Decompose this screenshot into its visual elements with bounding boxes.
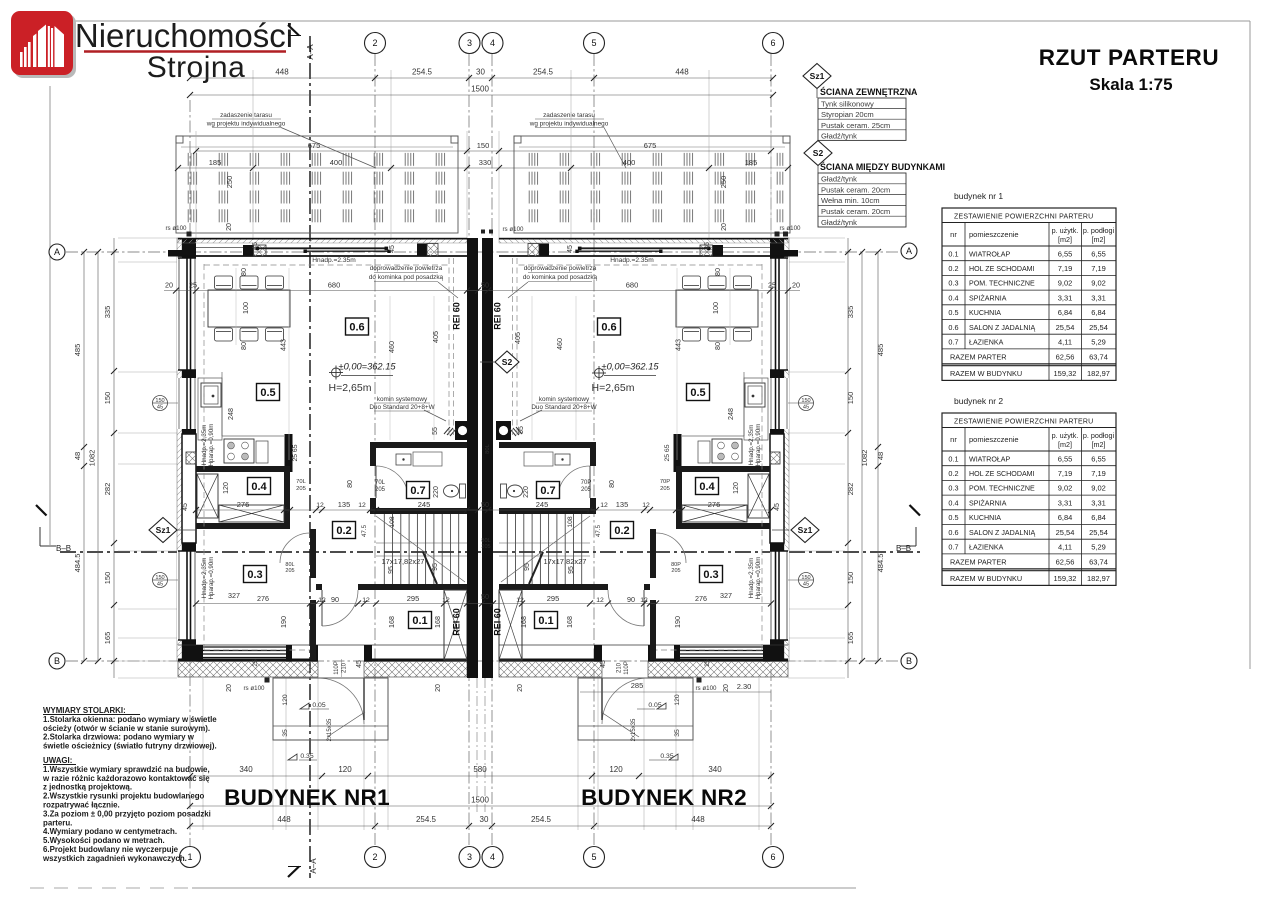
svg-text:95: 95 (432, 563, 439, 571)
grid bubble 1 bottom (180, 847, 201, 868)
terrace roof left hatch (181, 150, 453, 228)
svg-text:55: 55 (432, 427, 439, 435)
room label 0.4 unit2 (696, 478, 719, 495)
svg-text:80L: 80L (485, 443, 491, 453)
svg-text:SPIŻARNIA: SPIŻARNIA (969, 498, 1007, 507)
svg-text:205: 205 (671, 568, 680, 574)
svg-text:20: 20 (226, 223, 233, 231)
svg-text:80: 80 (347, 480, 354, 488)
svg-text:7,19: 7,19 (1058, 469, 1073, 478)
svg-text:2.Wszystkie rysunki projektu b: 2.Wszystkie rysunki projektu budowlanego (43, 792, 205, 801)
svg-text:484.5: 484.5 (73, 554, 82, 573)
svg-text:45: 45 (157, 582, 163, 588)
svg-text:1: 1 (187, 852, 192, 862)
grid axis column 1 (189, 100, 191, 846)
svg-text:A–A: A–A (309, 858, 318, 874)
svg-text:62,56: 62,56 (1056, 558, 1075, 567)
svg-text:448: 448 (675, 68, 689, 77)
svg-text:190: 190 (673, 616, 682, 628)
svg-text:205: 205 (481, 544, 490, 550)
svg-text:5,29: 5,29 (1091, 543, 1106, 552)
dimension column left inner (113, 238, 115, 678)
svg-text:Hnadp.=2.35m: Hnadp.=2.35m (312, 257, 356, 264)
svg-text:20: 20 (723, 684, 730, 692)
svg-text:Hnadp.=2,35m: Hnadp.=2,35m (748, 425, 755, 466)
dimension row top main (190, 77, 773, 79)
svg-text:25,54: 25,54 (1056, 323, 1075, 332)
svg-text:675: 675 (308, 141, 321, 150)
svg-text:327: 327 (720, 591, 732, 600)
svg-text:do kominka pod posadzką: do kominka pod posadzką (523, 274, 598, 281)
room label 0.7 unit1 (407, 482, 430, 499)
svg-text:komin systemowy: komin systemowy (539, 396, 590, 403)
svg-text:ŁAZIENKA: ŁAZIENKA (969, 544, 1004, 552)
svg-text:245: 245 (536, 500, 549, 509)
logo red square (11, 11, 73, 75)
dimension row interior y600 (196, 603, 771, 605)
svg-text:108: 108 (389, 516, 396, 528)
svg-text:4.Wymiary podano w centymetrac: 4.Wymiary podano w centymetrach. (43, 827, 177, 836)
svg-text:REI 60: REI 60 (452, 302, 462, 330)
svg-text:Nieruchomości: Nieruchomości (75, 17, 293, 54)
svg-text:POM. TECHNICZNE: POM. TECHNICZNE (969, 280, 1035, 288)
svg-text:185: 185 (745, 158, 758, 167)
svg-text:0.3: 0.3 (948, 484, 958, 493)
S2 diamond on party wall (495, 351, 519, 373)
svg-text:675: 675 (644, 141, 657, 150)
svg-text:p. użytk.: p. użytk. (1052, 226, 1079, 235)
svg-text:6: 6 (770, 38, 775, 48)
svg-text:25,54: 25,54 (1089, 528, 1108, 537)
svg-text:Hnadp.=2.35m: Hnadp.=2.35m (610, 257, 654, 264)
svg-text:[m2]: [m2] (1058, 440, 1072, 449)
svg-text:KUCHNIA: KUCHNIA (969, 514, 1001, 522)
svg-text:12: 12 (358, 502, 366, 509)
svg-text:55: 55 (518, 426, 525, 434)
svg-text:SALON Z JADALNIĄ: SALON Z JADALNIĄ (969, 529, 1035, 537)
svg-text:rs ø100: rs ø100 (166, 225, 188, 232)
dimension column left outer (83, 252, 85, 661)
svg-text:80: 80 (609, 480, 616, 488)
svg-text:100: 100 (241, 302, 250, 314)
svg-text:95: 95 (568, 566, 575, 574)
svg-text:4,11: 4,11 (1058, 543, 1072, 552)
grid bubble 2 top (365, 33, 386, 54)
dimension row bottom main (190, 825, 771, 827)
svg-text:Sz1: Sz1 (156, 525, 171, 535)
svg-text:0.5: 0.5 (260, 387, 275, 399)
svg-text:6,55: 6,55 (1091, 454, 1106, 463)
svg-text:20: 20 (517, 684, 524, 692)
svg-text:12: 12 (642, 502, 650, 509)
svg-text:2.30: 2.30 (737, 682, 752, 691)
svg-text:2: 2 (372, 852, 377, 862)
Sz1 diamond right wall (791, 518, 819, 543)
svg-text:p. podłogi: p. podłogi (1083, 226, 1115, 235)
svg-text:70L: 70L (296, 479, 306, 485)
svg-text:110P: 110P (334, 661, 340, 675)
grid bubble 4 bottom (482, 847, 503, 868)
svg-text:3,31: 3,31 (1058, 293, 1073, 302)
svg-text:1082: 1082 (860, 450, 869, 467)
svg-text:3: 3 (467, 852, 472, 862)
Sz1 diamond left wall (149, 518, 177, 543)
svg-text:20: 20 (435, 684, 442, 692)
room label 0.1 unit1 (409, 612, 432, 629)
svg-text:doprowadzenie powietrza: doprowadzenie powietrza (370, 265, 443, 272)
svg-text:1500: 1500 (471, 796, 489, 805)
svg-text:45: 45 (803, 405, 809, 411)
room label 0.6 unit2 (598, 318, 621, 335)
svg-text:25,54: 25,54 (1089, 323, 1108, 332)
svg-text:120: 120 (733, 482, 740, 494)
svg-text:ZESTAWIENIE POWIERZCHNI PART: ZESTAWIENIE POWIERZCHNI PARTERU (954, 214, 1093, 221)
svg-text:0.6: 0.6 (948, 323, 958, 332)
svg-text:400: 400 (330, 158, 343, 167)
svg-text:Hnadp.=2,35m: Hnadp.=2,35m (201, 425, 208, 466)
svg-text:80: 80 (713, 342, 722, 350)
svg-text:p. użytk.: p. użytk. (1052, 431, 1079, 440)
svg-text:159,32: 159,32 (1054, 574, 1077, 583)
svg-text:0.5: 0.5 (690, 387, 705, 399)
grid bubble 3 top (459, 33, 480, 54)
svg-text:Gładź/tynk: Gładź/tynk (821, 131, 857, 140)
terrace roof right hatch (519, 150, 785, 228)
svg-text:30: 30 (480, 815, 489, 824)
dimension column right mid (861, 252, 863, 661)
svg-text:Pustak ceram. 20cm: Pustak ceram. 20cm (821, 185, 890, 194)
svg-text:0.05: 0.05 (648, 702, 661, 709)
svg-text:448: 448 (275, 68, 289, 77)
level annotation unit2 (595, 369, 604, 378)
svg-text:Gładź/tynk: Gładź/tynk (821, 175, 857, 184)
svg-text:12: 12 (362, 597, 370, 604)
extension lines sides (118, 237, 177, 239)
svg-text:rozpatrywać łącznie.: rozpatrywać łącznie. (43, 801, 120, 810)
dimension row interior y290 (164, 290, 800, 292)
svg-text:50: 50 (481, 592, 489, 601)
dimension column right outer (877, 252, 879, 661)
svg-text:285: 285 (631, 681, 644, 690)
svg-text:12: 12 (600, 502, 608, 509)
svg-text:wg projektu indywidualnego: wg projektu indywidualnego (529, 121, 609, 128)
svg-text:6,84: 6,84 (1058, 308, 1073, 317)
svg-text:0.35: 0.35 (300, 753, 313, 760)
grid bubble A left (49, 244, 65, 260)
svg-text:1.Wszystkie wymiary sprawdzić: 1.Wszystkie wymiary sprawdzić na budowie… (43, 765, 210, 774)
table zestawienie powierzchni parteru budynek 2 (942, 413, 1116, 585)
svg-text:1.Stolarka okienna: podano wym: 1.Stolarka okienna: podano wymiary w świ… (43, 715, 217, 724)
svg-text:0.05: 0.05 (312, 702, 325, 709)
svg-text:0.4: 0.4 (251, 481, 267, 493)
svg-text:Sz1: Sz1 (810, 71, 825, 81)
svg-text:do kominka pod posadzką: do kominka pod posadzką (369, 274, 444, 281)
svg-text:±0,00=362.15: ±0,00=362.15 (338, 362, 396, 372)
svg-text:12: 12 (640, 597, 648, 604)
svg-text:12: 12 (596, 597, 604, 604)
svg-text:ŚCIANA ZEWNĘTRZNA: ŚCIANA ZEWNĘTRZNA (820, 86, 918, 97)
svg-text:47.5: 47.5 (361, 524, 368, 537)
grid axis row B (66, 660, 900, 662)
svg-text:2x15x35: 2x15x35 (327, 718, 333, 741)
svg-text:6: 6 (770, 852, 775, 862)
room label 0.4 unit1 (248, 478, 271, 495)
svg-text:[m2]: [m2] (1092, 235, 1106, 244)
svg-text:[m2]: [m2] (1092, 440, 1106, 449)
svg-text:35: 35 (674, 729, 681, 737)
svg-text:REI 60: REI 60 (452, 608, 462, 636)
svg-text:95: 95 (388, 566, 395, 574)
svg-text:Hparap.=0,90m: Hparap.=0,90m (755, 424, 762, 467)
svg-text:100: 100 (711, 302, 720, 314)
svg-text:RAZEM PARTER: RAZEM PARTER (950, 558, 1007, 567)
svg-text:KUCHNIA: KUCHNIA (969, 309, 1001, 317)
svg-text:70L: 70L (375, 480, 386, 486)
svg-text:12: 12 (318, 597, 326, 604)
svg-text:B–B: B–B (56, 544, 71, 553)
svg-text:25,54: 25,54 (1056, 528, 1075, 537)
svg-text:165: 165 (103, 632, 112, 645)
svg-text:45: 45 (389, 245, 396, 253)
svg-text:330: 330 (479, 158, 492, 167)
svg-text:0.3: 0.3 (247, 569, 262, 581)
svg-text:9,02: 9,02 (1058, 484, 1073, 493)
svg-text:ościeży (otwór w ścianie w sta: ościeży (otwór w ścianie w stanie surowy… (43, 724, 210, 733)
svg-text:0.7: 0.7 (948, 543, 958, 552)
dimension row bottom 340-120-580 (190, 775, 771, 777)
svg-text:48: 48 (876, 452, 885, 460)
svg-text:248: 248 (226, 408, 235, 420)
svg-text:90: 90 (331, 595, 339, 604)
section marker B-B left (36, 505, 47, 516)
svg-text:248: 248 (726, 408, 735, 420)
svg-text:komin systemowy: komin systemowy (377, 396, 428, 403)
svg-text:7,19: 7,19 (1091, 264, 1106, 273)
svg-text:Hparap.=0,90m: Hparap.=0,90m (208, 424, 215, 467)
svg-text:245: 245 (418, 500, 431, 509)
party wall leaf 2 (482, 238, 493, 678)
svg-text:50: 50 (481, 500, 489, 509)
section line A-A vertical (309, 36, 311, 878)
svg-text:17x17,82x27: 17x17,82x27 (544, 557, 587, 566)
level annotation unit1 (332, 368, 341, 377)
svg-text:210: 210 (342, 662, 348, 673)
svg-text:580: 580 (473, 765, 487, 774)
svg-text:6,84: 6,84 (1091, 308, 1106, 317)
svg-text:budynek nr 2: budynek nr 2 (954, 396, 1003, 406)
svg-text:150: 150 (801, 398, 810, 404)
svg-text:47.5: 47.5 (595, 524, 602, 537)
svg-text:168: 168 (433, 616, 442, 628)
dimension column right inner (847, 238, 849, 678)
svg-text:45: 45 (157, 405, 163, 411)
svg-text:45: 45 (182, 503, 189, 511)
svg-text:0.7: 0.7 (540, 485, 555, 497)
svg-text:3,31: 3,31 (1091, 293, 1106, 302)
svg-text:budynek nr 1: budynek nr 1 (954, 191, 1003, 201)
svg-text:460: 460 (387, 341, 396, 353)
svg-text:62,56: 62,56 (1056, 353, 1075, 362)
svg-text:50: 50 (481, 281, 489, 290)
svg-text:1500: 1500 (471, 85, 489, 94)
svg-text:0.2: 0.2 (614, 525, 629, 537)
svg-text:A: A (906, 246, 912, 256)
room label 0.7 unit2 (537, 482, 560, 499)
svg-text:0.5: 0.5 (948, 513, 958, 522)
svg-text:190: 190 (279, 616, 288, 628)
svg-text:335: 335 (846, 306, 855, 319)
svg-text:2.Stolarka drzwiowa: podano wy: 2.Stolarka drzwiowa: podano wymiary w (43, 733, 195, 742)
svg-text:48: 48 (73, 452, 82, 460)
svg-text:REI 60: REI 60 (493, 608, 503, 636)
svg-text:2x15x35: 2x15x35 (631, 718, 637, 741)
svg-text:108: 108 (567, 516, 574, 528)
svg-text:RAZEM W BUDYNKU: RAZEM W BUDYNKU (950, 574, 1022, 583)
grid axis column 2 (374, 54, 376, 846)
room label 0.2 unit2 (611, 522, 634, 539)
svg-text:250: 250 (225, 176, 234, 189)
svg-text:205: 205 (375, 487, 386, 493)
svg-text:20: 20 (792, 281, 800, 290)
svg-text:SPIŻARNIA: SPIŻARNIA (969, 293, 1007, 302)
svg-text:276: 276 (237, 500, 250, 509)
unit 2 geometry mirrored (496, 232, 814, 741)
svg-text:0.2: 0.2 (948, 469, 958, 478)
svg-text:120: 120 (338, 765, 352, 774)
svg-text:168: 168 (519, 616, 528, 628)
svg-text:220: 220 (433, 486, 440, 498)
svg-text:4,11: 4,11 (1058, 338, 1072, 347)
legend diamond S2 (804, 141, 832, 166)
svg-text:Sz1: Sz1 (798, 525, 813, 535)
svg-text:205: 205 (581, 487, 592, 493)
grid bubble 6 bottom (763, 847, 784, 868)
grid bubble A right (901, 243, 917, 259)
svg-text:25: 25 (252, 659, 259, 667)
svg-text:pomieszczenie: pomieszczenie (969, 435, 1019, 444)
svg-text:185: 185 (209, 158, 222, 167)
unit 1 geometry (153, 232, 471, 741)
svg-text:H=2,65m: H=2,65m (592, 382, 635, 394)
svg-text:0.2: 0.2 (336, 525, 351, 537)
svg-text:335: 335 (103, 306, 112, 319)
room label 0.1 unit2 (535, 612, 558, 629)
svg-text:680: 680 (626, 281, 639, 290)
svg-text:RZUT PARTERU: RZUT PARTERU (1039, 45, 1220, 70)
svg-text:254.5: 254.5 (531, 815, 552, 824)
svg-text:Hparap.=0,90m: Hparap.=0,90m (755, 557, 762, 600)
svg-text:35: 35 (282, 729, 289, 737)
svg-text:276: 276 (695, 594, 707, 603)
dimension row roof 675 (196, 150, 771, 152)
svg-text:WIATROŁAP: WIATROŁAP (969, 250, 1011, 258)
svg-text:220: 220 (523, 486, 530, 498)
svg-text:45: 45 (600, 660, 607, 668)
svg-text:45: 45 (356, 660, 363, 668)
svg-text:9,02: 9,02 (1058, 279, 1073, 288)
svg-text:6,84: 6,84 (1091, 513, 1106, 522)
svg-text:0.4: 0.4 (699, 481, 715, 493)
svg-text:REI 60: REI 60 (493, 302, 503, 330)
svg-text:276: 276 (257, 594, 269, 603)
svg-text:9,02: 9,02 (1091, 484, 1106, 493)
svg-text:400: 400 (623, 158, 636, 167)
legend diamond Sz1 (803, 64, 831, 89)
svg-text:z jednostką projektową.: z jednostką projektową. (43, 783, 132, 792)
svg-text:rs ø100: rs ø100 (696, 685, 718, 692)
svg-text:25 65: 25 65 (664, 444, 671, 461)
table zestawienie powierzchni parteru budynek 1 (942, 208, 1116, 380)
svg-text:443: 443 (674, 339, 683, 351)
svg-text:680: 680 (328, 281, 341, 290)
grid bubble 5 top (584, 33, 605, 54)
svg-text:5.Wysokości podano w metrach.: 5.Wysokości podano w metrach. (43, 836, 165, 845)
svg-text:Skala 1:75: Skala 1:75 (1089, 75, 1172, 94)
svg-text:A–A: A–A (306, 44, 315, 60)
svg-text:6,84: 6,84 (1058, 513, 1073, 522)
grid bubble 5 bottom (584, 847, 605, 868)
terrace roof left outline (176, 136, 458, 233)
svg-text:rs ø100: rs ø100 (780, 225, 802, 232)
svg-text:[m2]: [m2] (1058, 235, 1072, 244)
svg-text:120: 120 (223, 482, 230, 494)
svg-text:rs ø100: rs ø100 (244, 685, 266, 692)
svg-text:6,55: 6,55 (1058, 454, 1073, 463)
svg-text:20: 20 (721, 223, 728, 231)
svg-text:0.3: 0.3 (703, 569, 718, 581)
svg-text:nr: nr (950, 435, 957, 444)
svg-text:205: 205 (285, 568, 294, 574)
svg-text:282: 282 (103, 483, 112, 496)
svg-text:RAZEM W BUDYNKU: RAZEM W BUDYNKU (950, 369, 1022, 378)
svg-text:Strojna: Strojna (147, 51, 246, 84)
svg-text:45: 45 (774, 503, 781, 511)
svg-text:150: 150 (103, 572, 112, 585)
svg-text:448: 448 (691, 815, 705, 824)
svg-text:25: 25 (189, 281, 197, 290)
legend table sciana miedzy budynkami (818, 173, 906, 227)
svg-text:4: 4 (490, 38, 495, 48)
svg-text:405: 405 (513, 332, 522, 344)
svg-text:45: 45 (803, 582, 809, 588)
svg-text:0.3: 0.3 (948, 279, 958, 288)
svg-text:RAZEM PARTER: RAZEM PARTER (950, 353, 1007, 362)
svg-text:5: 5 (591, 852, 596, 862)
svg-text:B–B: B–B (896, 544, 911, 553)
svg-text:Hnadp.=2,35m: Hnadp.=2,35m (201, 558, 208, 599)
svg-text:Hparap.=0,90m: Hparap.=0,90m (208, 557, 215, 600)
svg-text:7,19: 7,19 (1058, 264, 1073, 273)
svg-text:B: B (54, 656, 60, 666)
grid axis row A (66, 251, 900, 253)
svg-text:wg projektu indywidualnego: wg projektu indywidualnego (206, 121, 286, 128)
svg-text:UWAGI:: UWAGI: (43, 756, 72, 765)
svg-text:90: 90 (627, 595, 635, 604)
svg-text:484.5: 484.5 (876, 554, 885, 573)
svg-text:zadaszenie tarasu: zadaszenie tarasu (220, 112, 272, 119)
svg-text:S2: S2 (502, 357, 513, 367)
svg-text:45: 45 (252, 242, 259, 250)
svg-text:Wełna min. 10cm: Wełna min. 10cm (821, 196, 880, 205)
svg-text:159,32: 159,32 (1054, 369, 1077, 378)
party wall leaf 1 (467, 238, 478, 678)
svg-text:WIATROŁAP: WIATROŁAP (969, 455, 1011, 463)
page frame bottom border solid part (192, 887, 856, 889)
svg-text:nr: nr (950, 230, 957, 239)
svg-text:7,19: 7,19 (1091, 469, 1106, 478)
svg-text:150: 150 (477, 141, 490, 150)
svg-text:120: 120 (282, 694, 289, 706)
